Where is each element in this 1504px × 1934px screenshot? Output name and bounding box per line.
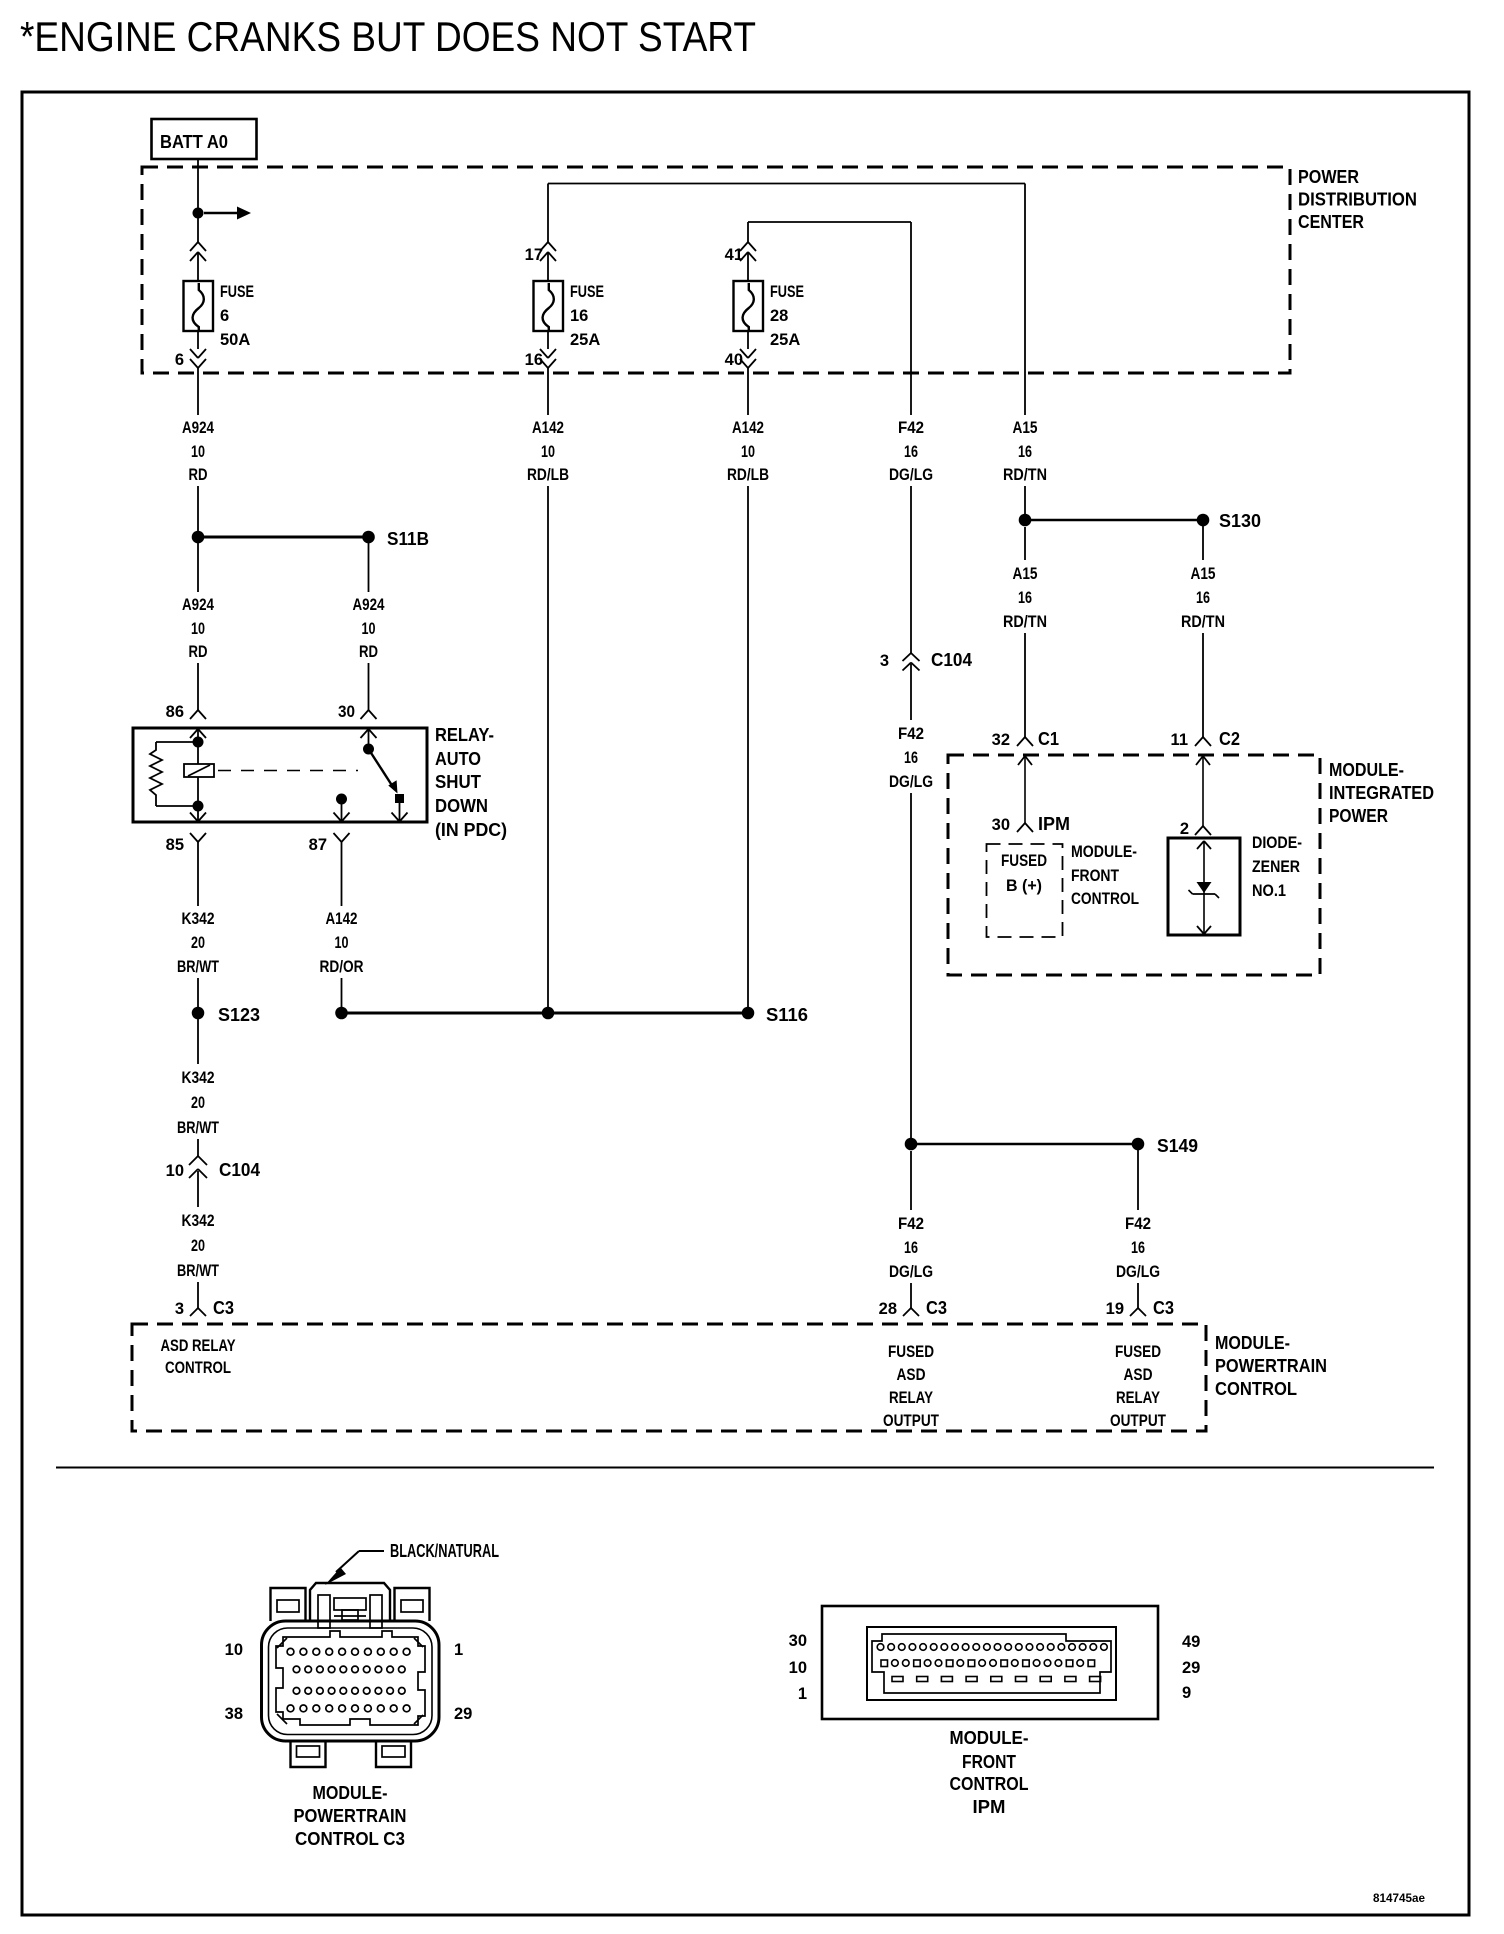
svg-text:A142: A142: [326, 910, 358, 928]
svg-text:K342: K342: [182, 910, 215, 928]
svg-text:MODULE-: MODULE-: [1071, 843, 1137, 861]
svg-text:2: 2: [1180, 820, 1189, 838]
svg-text:CONTROL: CONTROL: [950, 1774, 1029, 1794]
svg-text:16: 16: [525, 351, 543, 369]
svg-text:86: 86: [166, 703, 184, 721]
svg-text:F42: F42: [898, 725, 924, 743]
svg-text:3: 3: [175, 1300, 184, 1318]
svg-text:16: 16: [1018, 443, 1032, 461]
svg-text:BLACK/NATURAL: BLACK/NATURAL: [390, 1541, 499, 1561]
svg-text:10: 10: [335, 934, 349, 952]
svg-text:10: 10: [541, 443, 555, 461]
svg-text:32: 32: [992, 731, 1010, 749]
svg-text:FUSED: FUSED: [1115, 1343, 1161, 1361]
svg-text:(IN PDC): (IN PDC): [435, 820, 507, 840]
svg-text:30: 30: [338, 703, 355, 721]
svg-text:DOWN: DOWN: [435, 796, 488, 816]
svg-text:3: 3: [880, 652, 889, 670]
svg-text:RD/TN: RD/TN: [1003, 466, 1047, 484]
svg-text:CONTROL: CONTROL: [165, 1359, 231, 1377]
svg-text:87: 87: [309, 836, 327, 854]
svg-text:RD/LB: RD/LB: [727, 466, 769, 484]
svg-text:50A: 50A: [220, 331, 250, 349]
svg-text:38: 38: [225, 1705, 243, 1723]
svg-text:C104: C104: [931, 650, 972, 670]
svg-text:40: 40: [725, 351, 743, 369]
svg-text:28: 28: [879, 1300, 897, 1318]
svg-text:814745ae: 814745ae: [1373, 1891, 1425, 1905]
svg-text:6: 6: [220, 307, 229, 325]
svg-text:BATT A0: BATT A0: [160, 132, 228, 152]
svg-text:20: 20: [191, 934, 205, 952]
svg-text:RD/LB: RD/LB: [527, 466, 569, 484]
svg-text:IPM: IPM: [1038, 814, 1070, 834]
svg-text:1: 1: [454, 1641, 463, 1659]
svg-text:CONTROL C3: CONTROL C3: [295, 1829, 405, 1849]
svg-text:A924: A924: [353, 596, 386, 614]
svg-text:RELAY: RELAY: [889, 1389, 933, 1407]
svg-text:DG/LG: DG/LG: [889, 1263, 933, 1281]
svg-text:RD/TN: RD/TN: [1003, 613, 1047, 631]
svg-text:AUTO: AUTO: [435, 749, 481, 769]
svg-text:CENTER: CENTER: [1298, 212, 1364, 232]
svg-text:POWER: POWER: [1329, 806, 1388, 826]
svg-text:16: 16: [904, 443, 918, 461]
svg-text:DG/LG: DG/LG: [889, 773, 933, 791]
svg-text:ASD: ASD: [1124, 1366, 1153, 1384]
svg-text:C3: C3: [926, 1298, 947, 1318]
svg-text:RELAY: RELAY: [1116, 1389, 1160, 1407]
svg-text:C104: C104: [219, 1160, 260, 1180]
svg-text:10: 10: [225, 1641, 243, 1659]
svg-text:RD: RD: [359, 643, 378, 661]
svg-text:K342: K342: [182, 1069, 215, 1087]
svg-text:F42: F42: [898, 419, 924, 437]
svg-text:CONTROL: CONTROL: [1215, 1379, 1297, 1399]
svg-text:A142: A142: [732, 419, 764, 437]
svg-text:16: 16: [1018, 589, 1032, 607]
svg-text:DG/LG: DG/LG: [889, 466, 933, 484]
svg-text:1: 1: [798, 1685, 807, 1703]
svg-text:10: 10: [741, 443, 755, 461]
svg-text:6: 6: [175, 351, 184, 369]
svg-text:FUSED: FUSED: [888, 1343, 934, 1361]
svg-text:SHUT: SHUT: [435, 772, 481, 792]
svg-text:*ENGINE CRANKS BUT DOES NOT ST: *ENGINE CRANKS BUT DOES NOT START: [20, 13, 756, 60]
svg-text:S123: S123: [218, 1005, 260, 1025]
svg-text:INTEGRATED: INTEGRATED: [1329, 783, 1434, 803]
svg-text:30: 30: [789, 1632, 807, 1650]
svg-text:FUSED: FUSED: [1001, 852, 1047, 870]
svg-text:29: 29: [1182, 1659, 1200, 1677]
svg-text:A142: A142: [532, 419, 564, 437]
svg-text:RD/OR: RD/OR: [320, 958, 364, 976]
svg-text:S149: S149: [1157, 1136, 1198, 1156]
svg-text:25A: 25A: [570, 331, 600, 349]
svg-text:FUSE: FUSE: [770, 283, 804, 301]
svg-text:RD/TN: RD/TN: [1181, 613, 1225, 631]
svg-text:16: 16: [904, 749, 918, 767]
svg-text:POWERTRAIN: POWERTRAIN: [294, 1806, 407, 1826]
svg-text:C3: C3: [213, 1298, 234, 1318]
svg-text:FUSE: FUSE: [220, 283, 254, 301]
svg-text:DISTRIBUTION: DISTRIBUTION: [1298, 190, 1417, 210]
svg-text:10: 10: [191, 620, 205, 638]
svg-text:20: 20: [191, 1237, 205, 1255]
svg-text:S130: S130: [1219, 511, 1261, 531]
svg-text:F42: F42: [898, 1215, 924, 1233]
svg-text:DG/LG: DG/LG: [1116, 1263, 1160, 1281]
svg-text:CONTROL: CONTROL: [1071, 890, 1139, 908]
svg-text:S11B: S11B: [387, 529, 429, 549]
svg-text:29: 29: [454, 1705, 472, 1723]
svg-text:25A: 25A: [770, 331, 800, 349]
svg-text:OUTPUT: OUTPUT: [1110, 1412, 1166, 1430]
svg-text:9: 9: [1182, 1684, 1191, 1702]
svg-text:S116: S116: [766, 1005, 808, 1025]
svg-text:11: 11: [1171, 731, 1188, 749]
svg-text:16: 16: [904, 1239, 918, 1257]
svg-text:41: 41: [725, 246, 743, 264]
svg-text:MODULE-: MODULE-: [1215, 1333, 1290, 1353]
svg-text:POWERTRAIN: POWERTRAIN: [1215, 1356, 1327, 1376]
svg-text:FUSE: FUSE: [570, 283, 604, 301]
svg-text:DIODE-: DIODE-: [1252, 834, 1302, 852]
svg-text:MODULE-: MODULE-: [313, 1783, 388, 1803]
svg-text:K342: K342: [182, 1212, 215, 1230]
svg-text:RD: RD: [189, 643, 208, 661]
svg-text:C1: C1: [1038, 729, 1059, 749]
svg-text:A15: A15: [1013, 419, 1038, 437]
svg-text:17: 17: [525, 246, 543, 264]
svg-text:C2: C2: [1219, 729, 1240, 749]
svg-text:49: 49: [1182, 1633, 1200, 1651]
svg-text:MODULE-: MODULE-: [950, 1728, 1029, 1748]
svg-text:20: 20: [191, 1094, 205, 1112]
svg-text:16: 16: [570, 307, 588, 325]
svg-text:MODULE-: MODULE-: [1329, 760, 1404, 780]
svg-text:A15: A15: [1191, 565, 1216, 583]
svg-text:A15: A15: [1013, 565, 1038, 583]
svg-text:A924: A924: [182, 419, 215, 437]
svg-text:B (+): B (+): [1006, 877, 1042, 895]
svg-text:BR/WT: BR/WT: [177, 1119, 219, 1137]
svg-text:RD: RD: [189, 466, 208, 484]
svg-text:OUTPUT: OUTPUT: [883, 1412, 939, 1430]
svg-text:16: 16: [1196, 589, 1210, 607]
svg-text:10: 10: [166, 1162, 184, 1180]
svg-text:30: 30: [992, 816, 1010, 834]
svg-text:F42: F42: [1125, 1215, 1151, 1233]
svg-text:A924: A924: [182, 596, 215, 614]
svg-text:IPM: IPM: [973, 1797, 1006, 1817]
svg-text:10: 10: [789, 1659, 807, 1677]
svg-text:POWER: POWER: [1298, 167, 1359, 187]
svg-text:BR/WT: BR/WT: [177, 958, 219, 976]
svg-text:ASD RELAY: ASD RELAY: [161, 1337, 236, 1355]
svg-text:10: 10: [362, 620, 376, 638]
svg-text:19: 19: [1106, 1300, 1124, 1318]
svg-text:RELAY-: RELAY-: [435, 725, 494, 745]
svg-text:85: 85: [166, 836, 184, 854]
svg-text:10: 10: [191, 443, 205, 461]
svg-text:BR/WT: BR/WT: [177, 1262, 219, 1280]
svg-text:ASD: ASD: [897, 1366, 926, 1384]
svg-text:NO.1: NO.1: [1252, 882, 1286, 900]
svg-text:16: 16: [1131, 1239, 1145, 1257]
svg-text:C3: C3: [1153, 1298, 1174, 1318]
svg-text:FRONT: FRONT: [1071, 867, 1119, 885]
svg-text:ZENER: ZENER: [1252, 858, 1300, 876]
svg-text:FRONT: FRONT: [962, 1752, 1016, 1772]
svg-text:28: 28: [770, 307, 788, 325]
